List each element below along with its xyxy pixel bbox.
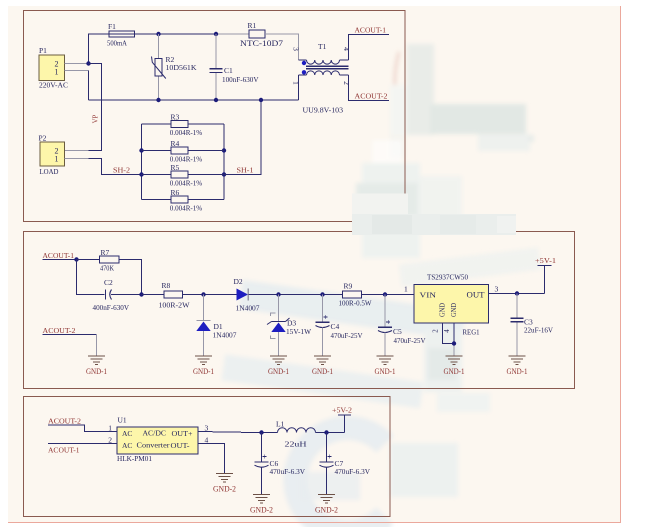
junction C7 tap	[324, 430, 328, 434]
watermark vertical bar	[407, 44, 434, 135]
svg-text:3: 3	[292, 47, 301, 51]
svg-text:GND-1: GND-1	[268, 367, 289, 376]
watermark ribbon upper	[239, 280, 466, 340]
wire R3 leads	[142, 123, 225, 125]
wire R5 leads	[142, 174, 225, 176]
pin 3 label REG1	[495, 285, 499, 294]
svg-text:R4: R4	[171, 139, 180, 148]
value D3	[286, 327, 312, 336]
svg-text:470uF-25V: 470uF-25V	[394, 336, 427, 345]
ground GND-1 (D3)	[268, 356, 289, 376]
svg-text:SH-2: SH-2	[113, 166, 130, 175]
svg-text:15V-1W: 15V-1W	[286, 327, 312, 336]
ground GND-1 (REG1)	[444, 356, 465, 376]
wire fuse left lead	[89, 34, 109, 64]
watermark white strokes in box1	[372, 85, 424, 218]
svg-text:NTC-10D7: NTC-10D7	[240, 38, 283, 48]
capacitor C5 lead	[384, 295, 386, 328]
wire R9 to VIN	[362, 294, 415, 296]
svg-text:T1: T1	[318, 42, 327, 51]
ground GND-2 (C7)	[315, 495, 338, 515]
svg-text:GND-1: GND-1	[444, 367, 465, 376]
svg-text:R7: R7	[101, 248, 110, 257]
wire ACOUT-2 stub	[43, 334, 97, 336]
value D1	[213, 331, 237, 340]
svg-text:HLK-PM01: HLK-PM01	[117, 454, 152, 463]
svg-text:OUT: OUT	[467, 291, 485, 300]
svg-text:22uH: 22uH	[285, 440, 308, 449]
junction C5 tap	[383, 292, 387, 296]
wire T1 pin4 to ACOUT-1	[349, 35, 390, 61]
zener D3 lead	[278, 295, 280, 322]
wire down to C2	[77, 260, 105, 295]
junction left bus R5	[139, 172, 143, 176]
junction C4 tap	[320, 292, 324, 296]
svg-text:ACOUT-2: ACOUT-2	[355, 92, 388, 101]
wire ACOUT-2 to U1 pin1	[48, 425, 117, 432]
wire D2 to R9	[248, 294, 342, 296]
wire REG1 ground lead	[453, 344, 455, 357]
svg-text:AC/DC: AC/DC	[143, 429, 167, 438]
inductor L1	[276, 420, 316, 449]
svg-text:R6: R6	[171, 188, 180, 197]
svg-text:2: 2	[432, 329, 440, 333]
wire shunt bank left bus	[141, 124, 143, 200]
svg-text:2: 2	[342, 81, 351, 85]
capacitor C2	[93, 278, 130, 312]
pin 4 label U1	[205, 436, 209, 445]
capacitor C5	[378, 320, 426, 356]
box 2 border (rectifier regulator section)	[24, 232, 575, 389]
svg-text:VIN: VIN	[420, 291, 437, 300]
varistor R2	[152, 34, 198, 100]
svg-text:470K: 470K	[100, 264, 114, 273]
wire R7 right down	[119, 260, 142, 295]
junction R7/C2 node	[139, 292, 143, 296]
svg-text:D2: D2	[234, 277, 243, 286]
diode D1 symbol	[196, 321, 210, 332]
resistor R3	[170, 113, 202, 137]
power +5V-2	[332, 406, 352, 433]
svg-text:0.004R-1%: 0.004R-1%	[170, 204, 202, 213]
regulator REG1 TS2937CW50	[414, 273, 489, 324]
junction left bus R4	[139, 148, 143, 152]
junction top rail C1 tap	[214, 32, 218, 36]
wire R8 to D2	[183, 294, 237, 296]
svg-text:1N4007: 1N4007	[213, 331, 237, 340]
ground GND-1 (C3)	[507, 356, 528, 376]
junction C6 tap	[259, 430, 263, 434]
svg-text:1: 1	[55, 68, 59, 77]
wire R4 leads	[142, 150, 225, 152]
svg-text:+5V-1: +5V-1	[535, 256, 556, 265]
resistor R6	[170, 188, 202, 212]
wire ACOUT-1 to U1 pin2	[48, 443, 117, 445]
svg-text:22uF-16V: 22uF-16V	[524, 326, 554, 335]
junction D3 tap	[276, 292, 280, 296]
box 3 border (AC/DC module section)	[24, 397, 391, 517]
svg-text:R3: R3	[171, 113, 180, 122]
svg-text:C5: C5	[393, 327, 402, 336]
wire REG1 pin2 stub	[443, 323, 455, 344]
junction right bus R4	[222, 148, 226, 152]
svg-text:OUT+: OUT+	[172, 429, 193, 438]
svg-text:VP: VP	[93, 114, 100, 123]
svg-text:GND-2: GND-2	[315, 506, 338, 515]
ground GND-1 (D1)	[193, 356, 214, 376]
svg-text:GND-1: GND-1	[507, 367, 528, 376]
module U1 HLK-PM01	[117, 416, 198, 464]
designator REG1	[463, 328, 480, 337]
svg-text:F1: F1	[108, 22, 116, 31]
svg-text:470uF-6.3V: 470uF-6.3V	[270, 467, 306, 476]
svg-text:C2: C2	[104, 278, 113, 287]
capacitor C7	[320, 455, 371, 495]
junction P1 pin2 node	[86, 61, 90, 65]
capacitor C4 lead	[322, 295, 324, 323]
svg-text:1: 1	[404, 285, 408, 294]
watermark band over box gap	[352, 214, 516, 235]
transformer T1	[292, 42, 352, 115]
wire P1 pin1 stub	[65, 70, 89, 72]
wire to R7	[77, 259, 100, 261]
wire SH-1 up to bottom rail	[224, 100, 261, 175]
svg-text:AC: AC	[122, 441, 132, 450]
watermark blocks bottom right	[300, 393, 490, 500]
wire bottom rail box1	[89, 99, 299, 101]
resistor R4	[170, 139, 202, 163]
capacitor C6 lead	[261, 433, 263, 463]
ground GND-2 (C6)	[250, 495, 273, 515]
diode D1 lead	[203, 295, 205, 321]
fuse F1	[107, 22, 135, 48]
watermark cluster between boxes	[356, 163, 462, 258]
svg-text:R9: R9	[344, 282, 353, 291]
junction ACOUT-1 node	[74, 257, 78, 261]
wire ACOUT-1 stub	[43, 259, 77, 261]
svg-text:1: 1	[108, 424, 112, 433]
svg-text:REG1: REG1	[463, 328, 480, 337]
junction D1 tap	[201, 292, 205, 296]
watermark ribbon lower	[222, 355, 424, 409]
wire P2 pin1 stub	[65, 158, 89, 160]
resistor R8	[159, 281, 191, 310]
junction right bus R5	[222, 172, 226, 176]
junction R2 bottom	[156, 98, 160, 102]
resistor R5	[170, 163, 202, 187]
ground GND-1 (C5)	[375, 356, 396, 376]
svg-text:400nF-630V: 400nF-630V	[93, 303, 130, 312]
svg-text:UU9.8V-103: UU9.8V-103	[303, 106, 344, 115]
net label ACOUT-1 (box3)	[48, 446, 80, 455]
svg-text:GND-2: GND-2	[213, 485, 236, 494]
resistor R7	[100, 248, 120, 273]
capacitor C6	[255, 455, 306, 495]
net label VP	[93, 114, 100, 123]
net label SH-2	[113, 166, 130, 175]
svg-text:Converter: Converter	[137, 441, 171, 450]
wire P1 pin2 stub	[65, 63, 89, 65]
pin 3 label U1	[205, 424, 209, 433]
watermark blob right mid	[424, 330, 462, 392]
svg-text:100nF-630V: 100nF-630V	[222, 75, 259, 84]
designator D3	[287, 319, 296, 328]
svg-text:10D561K: 10D561K	[166, 63, 198, 72]
net label ACOUT-1 (box2)	[43, 251, 75, 260]
wire to R8	[142, 294, 165, 296]
svg-text:0.004R-1%: 0.004R-1%	[170, 155, 202, 164]
svg-text:TS2937CW50: TS2937CW50	[427, 273, 468, 282]
svg-text:ACOUT-2: ACOUT-2	[43, 326, 76, 335]
svg-text:220V-AC: 220V-AC	[39, 81, 68, 90]
svg-text:R8: R8	[162, 281, 171, 290]
net label ACOUT-2 (box3)	[48, 417, 81, 426]
svg-text:LOAD: LOAD	[40, 167, 60, 176]
svg-text:C4: C4	[331, 322, 340, 331]
svg-text:+5V-2: +5V-2	[332, 406, 352, 415]
watermark ring bottom	[295, 428, 385, 527]
wire L1 to +5V-2	[316, 432, 345, 434]
junction REG1 gnd pins	[452, 341, 456, 345]
wire P1 pin1 down	[88, 71, 90, 101]
connector P2	[39, 134, 65, 177]
capacitor C4	[316, 315, 364, 356]
capacitor C3	[511, 294, 554, 357]
pin 2 label REG1	[432, 329, 440, 333]
wire T1 pin2 to ACOUT-2	[349, 75, 390, 101]
wire T1 pin1 down	[298, 75, 300, 100]
svg-text:3: 3	[495, 285, 499, 294]
wire net VP	[89, 64, 102, 151]
svg-text:1N4007: 1N4007	[236, 304, 260, 313]
power +5V-1	[535, 256, 556, 294]
pin 4 label REG1	[443, 329, 451, 333]
wire ACOUT-2 ground lead	[96, 335, 98, 357]
junction top rail R2 tap	[156, 32, 160, 36]
diode D2	[234, 277, 260, 313]
wire D3 to ground	[278, 332, 280, 356]
pin 2 label U1	[108, 436, 112, 445]
svg-text:0.004R-1%: 0.004R-1%	[170, 179, 202, 188]
svg-text:AC: AC	[122, 429, 132, 438]
svg-text:470uF-25V: 470uF-25V	[331, 331, 364, 340]
zener D3 symbol	[267, 313, 290, 339]
watermark cover box1 corner	[352, 194, 408, 230]
svg-text:SH-1: SH-1	[237, 166, 254, 175]
capacitor C7 lead	[326, 433, 328, 463]
wire fuse to C1 tap	[135, 33, 217, 35]
ground GND-2 (U1)	[213, 474, 236, 494]
capacitor C1	[210, 34, 260, 100]
svg-text:2: 2	[108, 436, 112, 445]
net label ACOUT-2 (box2)	[43, 326, 76, 335]
designator D1	[214, 322, 223, 331]
svg-text:P1: P1	[39, 46, 47, 55]
resistor R1	[240, 21, 283, 48]
svg-text:100R-2W: 100R-2W	[159, 301, 191, 310]
wire U1 OUT+ rail	[198, 432, 278, 433]
svg-text:GND-2: GND-2	[250, 506, 273, 515]
svg-text:GND-1: GND-1	[375, 367, 396, 376]
wire REG1 pin4 stub	[453, 323, 455, 344]
svg-text:4: 4	[443, 329, 451, 333]
svg-text:C1: C1	[224, 66, 233, 75]
svg-text:GND-1: GND-1	[312, 367, 333, 376]
junction SH-1 on bottom rail	[259, 98, 263, 102]
resistor R9	[339, 282, 373, 308]
connector P1	[39, 46, 68, 90]
svg-text:1: 1	[55, 155, 59, 164]
ground GND-1 (ACOUT-2)	[86, 356, 107, 376]
ground GND-1 (C4)	[312, 356, 333, 376]
svg-text:ACOUT-1: ACOUT-1	[43, 251, 75, 260]
wire P2 pin2 stub	[65, 150, 89, 152]
wire shunt bank right bus	[223, 124, 225, 200]
pin 1 label REG1	[404, 285, 408, 294]
wire U1 OUT- to ground	[198, 444, 225, 474]
svg-text:OUT-: OUT-	[171, 441, 191, 450]
net label ACOUT-1 (box1)	[355, 26, 387, 35]
watermark main band	[430, 104, 534, 151]
wire R6 leads	[142, 199, 225, 201]
net label ACOUT-2 (box1)	[355, 92, 388, 101]
svg-text:ACOUT-2: ACOUT-2	[48, 417, 81, 426]
wire D1 to ground	[203, 331, 205, 356]
wire C1 tap to R1	[216, 33, 249, 35]
net label SH-1	[237, 166, 254, 175]
svg-text:ACOUT-1: ACOUT-1	[355, 26, 387, 35]
svg-text:GND-1: GND-1	[193, 367, 214, 376]
svg-text:R1: R1	[248, 21, 257, 30]
svg-text:R5: R5	[171, 163, 180, 172]
svg-text:GND: GND	[450, 303, 458, 317]
junction C3 tap	[515, 291, 519, 295]
wire C2 to node	[111, 294, 142, 296]
svg-text:P2: P2	[39, 134, 47, 143]
watermark swoosh over regulator	[399, 248, 541, 287]
svg-text:100R-0.5W: 100R-0.5W	[339, 299, 373, 308]
svg-text:L1: L1	[276, 420, 285, 429]
pin 1 label U1	[108, 424, 112, 433]
box 1 border (mains input section)	[24, 11, 406, 222]
svg-text:ACOUT-1: ACOUT-1	[48, 446, 80, 455]
svg-text:1: 1	[292, 81, 301, 85]
junction C1 bottom	[214, 98, 218, 102]
svg-text:470uF-6.3V: 470uF-6.3V	[335, 467, 371, 476]
svg-text:U1: U1	[118, 416, 127, 425]
watermark pink arc right of box1	[390, 52, 405, 158]
svg-text:GND: GND	[439, 303, 447, 317]
svg-text:500mA: 500mA	[107, 39, 128, 48]
svg-text:4: 4	[342, 47, 351, 51]
wire P2 pin1 to SH-2	[89, 159, 142, 175]
svg-text:GND-1: GND-1	[86, 367, 107, 376]
svg-text:0.004R-1%: 0.004R-1%	[170, 128, 202, 137]
wire R1 to T1 pin3	[265, 34, 299, 60]
wire OUT to +5V-1	[489, 293, 545, 295]
